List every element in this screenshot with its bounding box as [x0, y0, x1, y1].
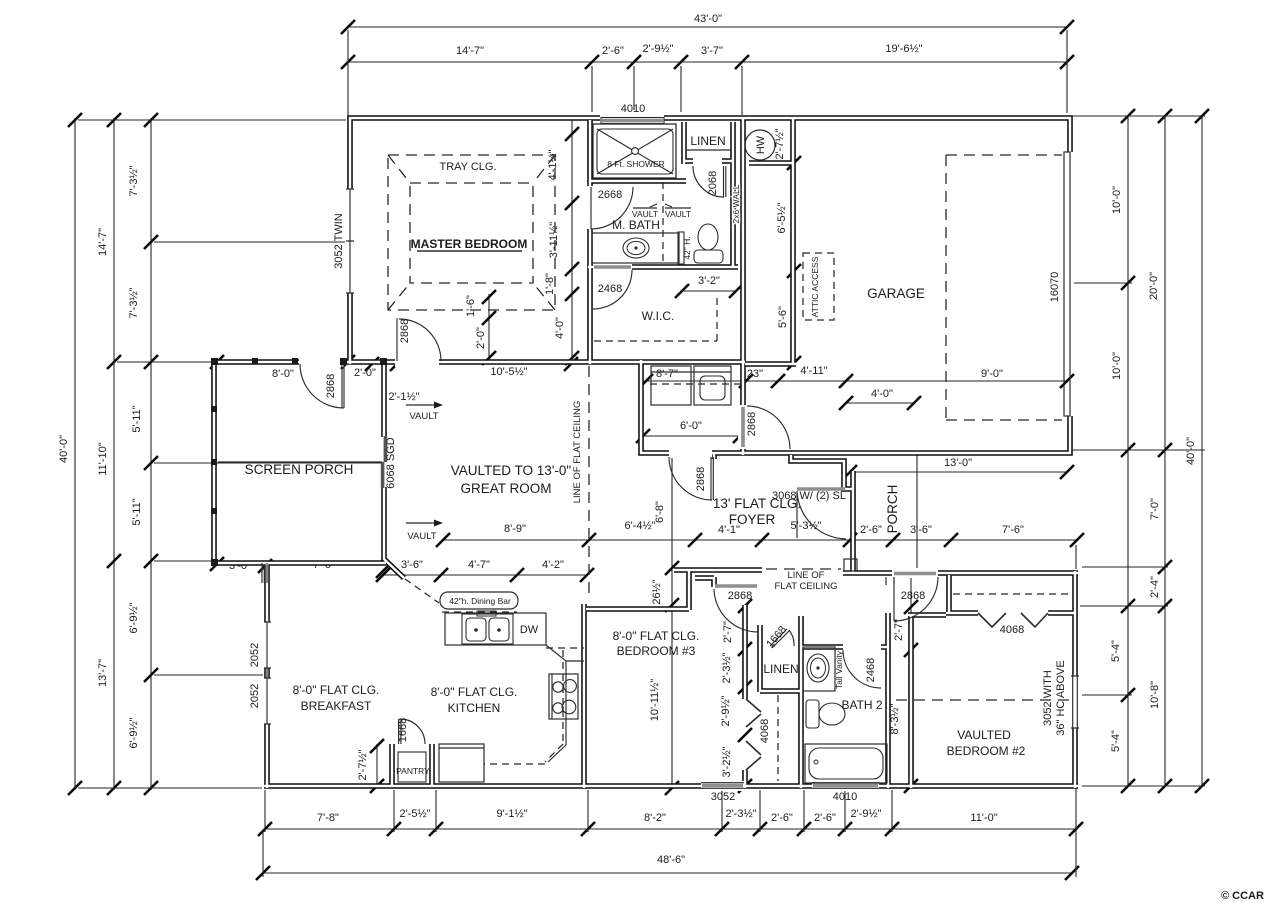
svg-text:2668: 2668 [598, 189, 622, 201]
svg-text:2868: 2868 [746, 412, 758, 436]
svg-text:40'-0": 40'-0" [58, 435, 70, 463]
vault labels master bath [633, 204, 691, 208]
dining bar [440, 592, 518, 609]
door hall linen 1668 [770, 629, 794, 648]
svg-text:8'-0" FLAT CLG.: 8'-0" FLAT CLG. [431, 685, 518, 699]
svg-text:6'-5½": 6'-5½" [776, 202, 788, 233]
svg-text:4'-2": 4'-2" [542, 559, 564, 571]
dim 13'-0" porch/garage [850, 471, 1067, 473]
svg-text:8'-9": 8'-9" [504, 523, 526, 535]
master bath vanity [592, 233, 679, 263]
door master bath 2668 [591, 187, 633, 229]
svg-text:7'-0": 7'-0" [1149, 498, 1161, 520]
kitchen counter east [546, 645, 584, 762]
svg-text:GARAGE: GARAGE [867, 286, 925, 301]
svg-text:40'-0": 40'-0" [1185, 437, 1197, 465]
svg-text:13'-7": 13'-7" [97, 659, 109, 687]
svg-text:SCREEN PORCH: SCREEN PORCH [245, 462, 354, 477]
garage door 16070 [1064, 152, 1070, 416]
svg-text:4010: 4010 [833, 791, 857, 803]
door screen porch 2868 [300, 364, 344, 408]
utility washer/dryer [651, 366, 691, 405]
svg-text:2'-9½": 2'-9½" [850, 808, 881, 820]
svg-text:1668: 1668 [397, 718, 409, 742]
svg-text:26½": 26½" [651, 579, 663, 604]
svg-text:6'-9½": 6'-9½" [128, 602, 140, 633]
door garage entry 2868 [747, 406, 790, 449]
door WIC 2468 [593, 270, 632, 309]
dim line right 40'-0" [1201, 116, 1203, 786]
dim line left segments [150, 118, 152, 790]
svg-text:10'-8": 10'-8" [1149, 681, 1161, 709]
svg-text:3052 WITH: 3052 WITH [1042, 670, 1054, 726]
svg-text:GREAT ROOM: GREAT ROOM [460, 481, 551, 496]
dim master bedroom east vertical [571, 120, 573, 360]
svg-text:9'-0": 9'-0" [981, 368, 1003, 380]
svg-text:10'-0": 10'-0" [1111, 186, 1123, 214]
extension lines right [917, 116, 1205, 786]
svg-text:7'-3½": 7'-3½" [128, 287, 140, 318]
dim row kitchen 3'-6"/4'-7"/4'-2" [383, 574, 587, 576]
window bed2 bottom 4010 [813, 784, 878, 788]
svg-text:M. BATH: M. BATH [612, 218, 660, 232]
HW water heater [745, 130, 775, 160]
svg-text:FOYER: FOYER [729, 512, 776, 527]
svg-text:2468: 2468 [598, 283, 622, 295]
svg-text:8'-0" FLAT CLG.: 8'-0" FLAT CLG. [613, 629, 700, 643]
screen porch lower door leaf [264, 565, 266, 583]
dim row mid foyer/great room [443, 539, 1077, 541]
window master west 3052 TWIN [346, 189, 354, 293]
svg-text:LINE OF: LINE OF [788, 570, 825, 581]
porch front step [886, 577, 894, 585]
screen porch mid rail [218, 461, 382, 463]
svg-text:5'-11": 5'-11" [131, 498, 143, 525]
door bedroom3 2868 [714, 589, 758, 632]
vault break dashed in master bath [662, 182, 664, 263]
svg-text:6'-9½": 6'-9½" [128, 717, 140, 748]
svg-text:43'-0": 43'-0" [694, 13, 722, 25]
svg-text:2'-5½": 2'-5½" [399, 808, 430, 820]
svg-text:© CCAR: © CCAR [1221, 890, 1264, 902]
kitchen sink counter [445, 613, 546, 645]
porch front corner post [844, 559, 857, 571]
svg-text:DW: DW [520, 624, 539, 636]
svg-text:W.I.C.: W.I.C. [642, 309, 675, 323]
svg-text:MASTER BEDROOM: MASTER BEDROOM [411, 237, 528, 251]
dim porch bottom 3'-0"/7'-0" [210, 557, 390, 578]
vanity partition 42in [678, 232, 684, 264]
extension lines bottom [263, 788, 1076, 877]
dim line top second row [348, 61, 1067, 63]
master bath toilet [698, 224, 718, 250]
garage door dashed track [946, 155, 1062, 420]
bedroom2 ceiling dashed [896, 699, 1072, 701]
dim line left 40'-0" [74, 118, 76, 790]
svg-text:5'-4": 5'-4" [1110, 640, 1122, 662]
svg-text:2'-6": 2'-6" [814, 812, 836, 824]
breakfast diagonal dashed [405, 579, 439, 603]
svg-text:BEDROOM #3: BEDROOM #3 [617, 644, 696, 658]
svg-text:42" H.: 42" H. [682, 236, 692, 259]
svg-text:2'-6": 2'-6" [602, 45, 624, 57]
svg-text:2'-7½": 2'-7½" [357, 749, 369, 780]
dim line left 14'-7"/11'-10"/13'-7" [113, 118, 115, 790]
door front entry 3068 [797, 491, 846, 539]
svg-text:2'-9½": 2'-9½" [642, 43, 673, 55]
door bath2 2468 [843, 650, 881, 688]
WIC dashed shelves [594, 298, 717, 341]
svg-text:2'-7½": 2'-7½" [774, 128, 786, 159]
svg-text:1'-6": 1'-6" [465, 295, 477, 317]
shower 8ft [593, 124, 676, 178]
svg-text:4'-0": 4'-0" [871, 388, 893, 400]
svg-text:10'-5½": 10'-5½" [490, 366, 527, 378]
svg-text:BREAKFAST: BREAKFAST [301, 699, 372, 713]
window bed2 east 3052 [1071, 676, 1079, 728]
svg-text:14'-7": 14'-7" [97, 228, 109, 256]
svg-text:4'-0": 4'-0" [554, 317, 566, 339]
dim master door small vertical [488, 294, 490, 358]
screen porch posts [211, 358, 387, 566]
svg-text:2'-0": 2'-0" [475, 327, 487, 349]
svg-text:BEDROOM #2: BEDROOM #2 [947, 744, 1026, 758]
svg-text:6'-4½": 6'-4½" [624, 520, 655, 532]
svg-text:19'-6½": 19'-6½" [885, 43, 922, 55]
svg-text:3'-6": 3'-6" [910, 524, 932, 536]
bedroom2 closet shelf dashed [953, 593, 1071, 595]
svg-text:8 Ft. SHOWER: 8 Ft. SHOWER [607, 159, 665, 169]
svg-text:4'-11": 4'-11" [800, 365, 827, 377]
svg-text:5'-4": 5'-4" [1110, 730, 1122, 752]
svg-text:8'-7": 8'-7" [656, 368, 678, 380]
dim line bottom row [265, 828, 1076, 830]
svg-text:2868: 2868 [325, 374, 337, 398]
dim 4'-0" short row [846, 402, 914, 404]
vault arrow lower great room [406, 522, 436, 524]
door master bedroom 2868 [397, 318, 441, 361]
svg-text:2'-3½": 2'-3½" [721, 652, 733, 683]
svg-text:6068 SGD: 6068 SGD [385, 437, 397, 488]
svg-text:3'-7": 3'-7" [701, 45, 723, 57]
windows breakfast 2052/2052 [264, 622, 271, 724]
svg-text:LINEN: LINEN [763, 662, 798, 676]
svg-text:4'-1½": 4'-1½" [547, 149, 559, 180]
svg-text:4068: 4068 [1000, 624, 1024, 636]
svg-text:11'-0": 11'-0" [970, 812, 997, 824]
dim line bottom 48'-6" [263, 872, 1072, 874]
svg-text:LINEN: LINEN [690, 134, 725, 148]
svg-text:3052: 3052 [711, 791, 735, 803]
svg-text:8'-0" FLAT CLG.: 8'-0" FLAT CLG. [293, 683, 380, 697]
kitchen stove [549, 674, 578, 719]
window 4010 above shower [601, 118, 664, 124]
opening punches [262, 113, 1080, 791]
linen shelf [686, 149, 731, 151]
svg-text:VAULT: VAULT [407, 531, 436, 542]
dim WIC 3'-2" [682, 290, 736, 292]
vault arrow upper great room [406, 404, 436, 406]
svg-text:2868: 2868 [728, 590, 752, 602]
walls: exterior shell and interior partitions [212, 117, 1078, 788]
tray ceiling dashed master [388, 155, 555, 310]
bifold doors bedroom2 closet 4068 [978, 613, 1048, 627]
svg-text:5'-6": 5'-6" [777, 306, 789, 328]
svg-text:4'-7": 4'-7" [468, 559, 490, 571]
door sills (gray) [594, 267, 936, 586]
svg-text:TRAY CLG.: TRAY CLG. [439, 161, 496, 173]
svg-text:ATTIC ACCESS: ATTIC ACCESS [810, 256, 820, 317]
svg-text:HW: HW [755, 135, 767, 154]
svg-text:4010: 4010 [621, 103, 645, 115]
foyer ceiling dashed [766, 568, 841, 570]
svg-text:LINE OF FLAT CEILING: LINE OF FLAT CEILING [572, 401, 583, 504]
svg-text:48'-6": 48'-6" [657, 854, 685, 866]
svg-text:VAULTED: VAULTED [957, 728, 1011, 742]
dim pantry 2'-7half [376, 744, 378, 788]
svg-text:FLAT CEILING: FLAT CEILING [775, 581, 838, 592]
bath2 tub [805, 744, 887, 783]
dim line right middle 20'/7'/2'-4"/10'-8" [1164, 116, 1166, 786]
svg-text:2052: 2052 [249, 684, 261, 708]
bedroom3 closet shelf dashed [777, 695, 779, 781]
svg-text:2'-7": 2'-7" [893, 619, 905, 641]
bath2 vanity [803, 647, 835, 691]
svg-text:2468: 2468 [865, 658, 877, 682]
svg-text:1'-8": 1'-8" [544, 273, 556, 295]
svg-text:2'-3½": 2'-3½" [725, 808, 756, 820]
bath2 toilet [806, 700, 819, 728]
svg-text:VAULTED TO 13'-0": VAULTED TO 13'-0" [451, 463, 572, 478]
svg-text:42"h. Dining Bar: 42"h. Dining Bar [449, 596, 511, 606]
bifold doors bedroom3 closet 4068 [746, 699, 761, 770]
svg-text:2868: 2868 [399, 319, 411, 343]
svg-text:VAULT: VAULT [665, 209, 691, 219]
svg-text:16070: 16070 [1049, 272, 1061, 303]
svg-text:6'-8": 6'-8" [654, 501, 666, 523]
svg-text:8'-2": 8'-2" [644, 812, 666, 824]
svg-text:VAULT: VAULT [409, 411, 438, 422]
dim garage west wall vertical [793, 119, 795, 363]
svg-text:2'-9½": 2'-9½" [720, 695, 732, 726]
svg-text:2'-4": 2'-4" [1149, 576, 1161, 598]
dim bath2/bed2 vertical 2'-7"/8'-3half [910, 578, 912, 788]
svg-text:11'-10": 11'-10" [97, 442, 109, 475]
svg-text:9'-1½": 9'-1½" [496, 808, 527, 820]
svg-text:8'-0": 8'-0" [272, 368, 294, 380]
svg-text:7'-6": 7'-6" [1002, 524, 1024, 536]
svg-text:2x6 WALL: 2x6 WALL [731, 184, 741, 223]
svg-text:2'-6": 2'-6" [860, 524, 882, 536]
window bed3 bottom 3052 [702, 784, 743, 788]
svg-text:13' FLAT CLG.: 13' FLAT CLG. [713, 496, 801, 511]
svg-text:6'-0": 6'-0" [680, 420, 702, 432]
svg-text:2052: 2052 [249, 643, 261, 667]
svg-text:13'-0": 13'-0" [944, 457, 972, 469]
pantry interior [398, 752, 426, 782]
svg-text:2868: 2868 [901, 590, 925, 602]
svg-text:10'-0": 10'-0" [1111, 352, 1123, 380]
svg-text:3'-2": 3'-2" [698, 275, 720, 287]
svg-text:PORCH: PORCH [885, 485, 900, 534]
svg-text:23": 23" [747, 368, 763, 380]
svg-text:5'-3½": 5'-3½" [790, 520, 821, 532]
svg-text:3'-6": 3'-6" [401, 559, 423, 571]
svg-text:KITCHEN: KITCHEN [448, 701, 501, 715]
door bedroom2 2868 [894, 577, 938, 621]
door pantry 1668 [399, 719, 425, 744]
svg-text:2'-6": 2'-6" [771, 812, 793, 824]
dim line right inner 10'/10'/5'-4"/5'-4" [1127, 116, 1129, 786]
svg-text:7'-8": 7'-8" [317, 812, 339, 824]
svg-text:PANTRY: PANTRY [396, 766, 430, 776]
attic access garage [803, 253, 834, 320]
svg-text:3052 TWIN: 3052 TWIN [333, 213, 345, 268]
svg-text:2'-0": 2'-0" [354, 367, 376, 379]
dim foyer west vertical 6'-8"/26half [671, 456, 673, 788]
svg-text:4068: 4068 [759, 719, 771, 743]
svg-text:3'-11½": 3'-11½" [548, 222, 560, 258]
svg-text:10'-11½": 10'-11½" [649, 679, 661, 722]
extension lines top [348, 30, 1067, 116]
dim line top 43'-0" [348, 26, 1067, 28]
svg-text:7'-3½": 7'-3½" [128, 165, 140, 196]
svg-text:20'-0": 20'-0" [1148, 272, 1160, 300]
svg-text:2868: 2868 [695, 467, 707, 491]
dim 10'-5 1/2 along master south wall [390, 357, 578, 371]
svg-text:36" HC ABOVE: 36" HC ABOVE [1055, 660, 1067, 735]
kitchen bottom cabinet [439, 744, 484, 782]
svg-text:2068: 2068 [707, 171, 719, 195]
door utility 2868 [669, 457, 713, 500]
svg-text:BATH 2: BATH 2 [841, 698, 882, 712]
door linen 2068 [693, 166, 726, 197]
dim bedroom3 east ticks [738, 599, 752, 793]
dim utility 6'-0" [643, 435, 740, 437]
great room ceiling dashed [588, 366, 590, 600]
svg-text:Tall Vanity: Tall Vanity [834, 650, 844, 689]
svg-text:2'-1½": 2'-1½" [388, 391, 419, 403]
sliding glass door 6068 SGD [384, 436, 388, 462]
svg-text:14'-7": 14'-7" [456, 45, 484, 57]
svg-text:3'-2½": 3'-2½" [721, 746, 733, 777]
extension lines left [78, 120, 382, 788]
dim row across garage 23"/4'-11"/9'-0" [646, 380, 1067, 382]
svg-text:5'-11": 5'-11" [131, 405, 143, 432]
